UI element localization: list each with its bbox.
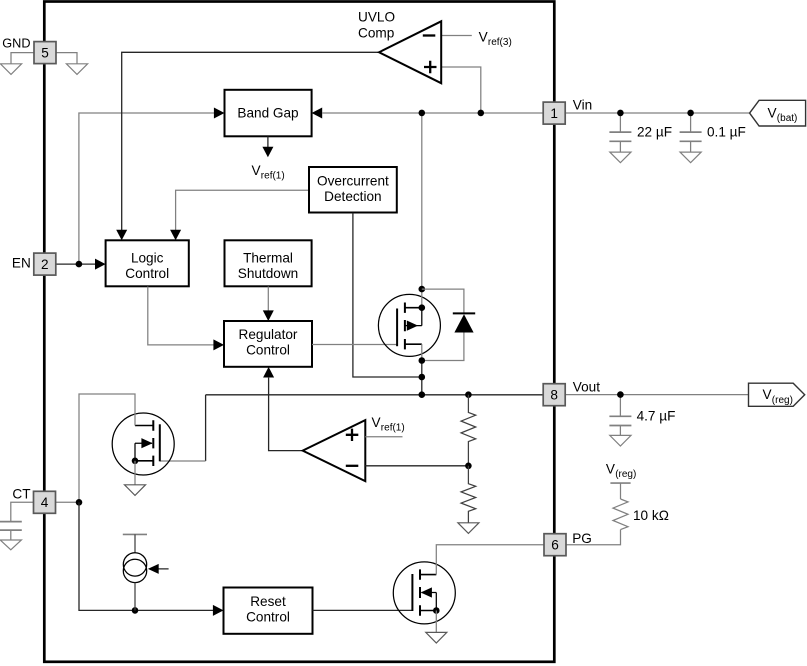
arrow into BandGap left <box>214 108 225 119</box>
svg-text:Control: Control <box>125 266 169 281</box>
minus sign UVLO <box>423 34 436 36</box>
arrow into RegulatorControl left <box>213 339 224 350</box>
svg-text:(reg): (reg) <box>615 469 636 480</box>
ground Q3 <box>426 632 447 643</box>
arrow into LogicControl top1 <box>116 230 127 241</box>
svg-text:Control: Control <box>246 610 290 625</box>
capacitor CT external <box>0 522 22 531</box>
arrow into LogicControl left <box>95 259 106 270</box>
ground C2 <box>680 152 701 163</box>
pin 6 PG <box>544 534 566 556</box>
Q2 body tap <box>135 443 152 461</box>
Q1 drain bar <box>405 307 422 309</box>
wire Vin rail external <box>565 112 750 114</box>
svg-text:Vin: Vin <box>573 98 592 113</box>
wire CT node down to reset row <box>79 502 213 610</box>
wire EN to BandGap <box>79 113 214 264</box>
svg-text:Regulator: Regulator <box>239 327 298 342</box>
svg-text:Overcurrent: Overcurrent <box>317 173 389 188</box>
svg-text:4: 4 <box>41 495 49 510</box>
flag V(reg) output <box>749 383 805 406</box>
wire pullup top lead <box>620 483 622 499</box>
wire CT pin to node <box>56 501 79 503</box>
resistor R2 feedback bottom <box>461 466 476 523</box>
svg-text:Vout: Vout <box>573 380 600 395</box>
flag V(bat) <box>750 100 806 126</box>
junction dot Vout-4.7uF <box>617 391 624 398</box>
wire BandGap down <box>267 137 269 148</box>
svg-text:10 kΩ: 10 kΩ <box>633 508 669 523</box>
svg-text:ref(1): ref(1) <box>261 170 285 181</box>
ground GND-right <box>66 64 87 75</box>
junction dot Vin-22uF <box>617 110 624 117</box>
wire Q3 drain to PG pin <box>436 545 544 575</box>
junction dot CT <box>76 499 83 506</box>
plus sign error amp <box>346 429 359 441</box>
Q2 source bar <box>135 460 153 462</box>
junction dot Vout-Q1 <box>419 391 426 398</box>
wire diode bottom link <box>422 333 464 361</box>
block Overcurrent Detection <box>309 167 397 213</box>
Q1 body arrow <box>407 321 418 331</box>
resistor R3 10k <box>613 499 628 530</box>
block Thermal Shutdown <box>225 240 312 286</box>
svg-text:0.1 µF: 0.1 µF <box>707 125 746 140</box>
wire 4.7uF leads <box>619 395 621 436</box>
svg-text:(bat): (bat) <box>777 113 798 124</box>
wire I1 bottom lead <box>134 583 136 611</box>
wire 22uF leads <box>619 113 621 152</box>
svg-text:2: 2 <box>41 257 49 272</box>
junction dot reset row <box>132 607 139 614</box>
wire I1 top lead <box>134 534 136 552</box>
wire ThermalShutdown to RegulatorControl <box>267 287 269 311</box>
IC boundary U1 <box>44 2 554 662</box>
wire Vin internal rail <box>322 112 543 114</box>
wire Vout rail to discharge gate link <box>205 395 207 461</box>
supply tick V(reg) <box>610 482 630 484</box>
ground GND-left <box>0 64 21 75</box>
Q1 body tap <box>405 308 422 326</box>
wire EN pin to LogicControl <box>56 263 95 265</box>
svg-text:1: 1 <box>550 106 558 121</box>
svg-text:Comp: Comp <box>358 25 394 40</box>
wire ResetControl to Q3 gate <box>313 609 413 611</box>
diode D1 cathode bar <box>453 312 475 314</box>
junction dot Vout-divider <box>465 391 472 398</box>
arrow into RegulatorControl bottom <box>263 367 274 378</box>
Q2 body arrow <box>141 438 152 448</box>
arrow into BandGap right <box>312 108 323 119</box>
wire Q3 source to ground <box>435 611 437 633</box>
Q3 source bar <box>420 610 436 612</box>
svg-text:8: 8 <box>550 388 558 403</box>
svg-text:V: V <box>606 462 615 477</box>
capacitor C1 22uF <box>609 132 631 141</box>
capacitor C3 4.7uF <box>609 416 631 425</box>
Q2 drain bar <box>135 425 153 427</box>
junction dot OCD node <box>419 374 426 381</box>
wire I1 control arrow stem <box>150 568 169 570</box>
transistor Q2 discharge FET circle <box>112 413 174 475</box>
arrow into LogicControl top2 <box>170 230 181 241</box>
junction dot rail-UVLO <box>478 110 485 117</box>
pin 2 EN <box>34 253 56 275</box>
Q3 gate plate <box>411 574 413 611</box>
arrow into RegulatorControl top <box>263 310 274 321</box>
block Band Gap <box>225 90 312 137</box>
ground C3 <box>610 435 631 446</box>
junction dot Q2 source <box>132 458 139 465</box>
Q1 gate plate <box>396 309 398 347</box>
pin 4 CT <box>34 491 56 513</box>
pin 5 GND <box>34 42 56 64</box>
junction dot Q3 source <box>433 607 440 614</box>
wire Q1 drain lead <box>421 289 423 308</box>
junction dot Q1 drain top <box>419 286 426 293</box>
Q3 body tap <box>421 593 436 611</box>
wire Vout rail external <box>565 394 748 396</box>
wire UVLO output to Logic Control <box>122 52 379 230</box>
wire OvercurrentDetection down to passFET source node <box>353 213 422 377</box>
svg-text:V: V <box>763 387 772 402</box>
svg-text:GND: GND <box>2 37 30 51</box>
Q3 body arrow <box>421 587 432 597</box>
arrow into ResetControl left <box>213 605 224 616</box>
svg-text:Reset: Reset <box>250 594 286 609</box>
current source I1 circles <box>123 553 146 576</box>
plus sign UVLO <box>424 61 437 73</box>
svg-text:Band Gap: Band Gap <box>237 106 298 121</box>
junction dot rail-passFET <box>419 110 426 117</box>
block Logic Control <box>106 240 189 286</box>
wire error amp output to RegulatorControl <box>269 378 303 451</box>
svg-text:Detection: Detection <box>324 189 381 204</box>
arrow into I1 <box>148 564 159 574</box>
Q1 channel dashes <box>404 303 406 350</box>
wire GND pin5 right to ground <box>56 53 77 64</box>
junction dot Q1 source node <box>419 357 426 364</box>
wire LogicControl to RegulatorControl <box>148 287 214 345</box>
wire UVLO plus input <box>441 67 481 113</box>
junction dot Q1 drain bar <box>419 304 426 311</box>
svg-text:V: V <box>252 163 261 178</box>
junction dot EN <box>76 261 83 268</box>
pin 1 Vin <box>543 102 565 124</box>
op-amp error amplifier <box>303 420 366 481</box>
junction dot Vin-0.1uF <box>687 110 694 117</box>
svg-text:Shutdown: Shutdown <box>238 266 298 281</box>
wire GND pin5 left to ground <box>11 53 34 64</box>
Q3 channel dashes <box>419 569 421 615</box>
transistor Q1 pass FET circle <box>378 294 440 356</box>
wire Vin rail down to pass FET <box>421 113 423 289</box>
junction dot divider mid <box>465 463 472 470</box>
capacitor C2 0.1uF <box>680 132 702 141</box>
svg-text:EN: EN <box>12 256 31 271</box>
wire Vout internal rail <box>206 394 544 396</box>
wire discharge FET gate lead <box>160 460 206 462</box>
ground Q2 <box>125 485 146 496</box>
wire error amp plus stub <box>365 436 402 438</box>
wire Q2 drain to CT node <box>79 394 135 502</box>
diode D1 triangle <box>454 314 473 332</box>
wire diode top link <box>422 289 464 313</box>
Q3 drain bar <box>420 574 436 576</box>
wire UVLO minus stub <box>441 35 472 37</box>
wire Q1 source node down to Vout rail <box>421 361 423 395</box>
ground C1 <box>610 152 631 163</box>
arrow BandGap Vref(1) <box>262 147 273 158</box>
wire Q1 source lead <box>421 344 423 360</box>
block Regulator Control <box>224 321 312 367</box>
op-amp UVLO comparator <box>379 21 441 83</box>
Q2 channel dashes <box>152 420 154 466</box>
svg-text:22 µF: 22 µF <box>637 125 672 140</box>
block Reset Control <box>224 588 313 634</box>
wire RegulatorControl gate lead to pass FET <box>312 344 397 346</box>
wire OvercurrentDetection to LogicControl <box>176 190 309 230</box>
svg-text:ref(1): ref(1) <box>381 423 405 434</box>
minus sign error amp <box>346 465 359 467</box>
svg-text:Logic: Logic <box>131 250 164 265</box>
pin 8 Vout <box>543 384 565 406</box>
svg-text:(reg): (reg) <box>772 395 793 406</box>
wire CT cap to ground <box>10 530 12 540</box>
wire pullup bottom to PG pin <box>566 530 621 545</box>
svg-text:CT: CT <box>12 486 30 501</box>
transistor Q3 PG FET circle <box>393 562 455 624</box>
svg-text:5: 5 <box>41 45 49 60</box>
svg-text:V: V <box>479 30 488 45</box>
resistor R1 feedback top <box>461 395 476 466</box>
current source I1 top tick <box>123 533 147 535</box>
Q1 source bar <box>405 343 422 345</box>
svg-text:ref(3): ref(3) <box>488 37 512 48</box>
svg-text:Thermal: Thermal <box>243 250 293 265</box>
wire Q2 source to ground <box>134 461 136 485</box>
svg-text:4.7 µF: 4.7 µF <box>637 409 676 424</box>
svg-text:V: V <box>372 415 381 430</box>
wire error amp minus to divider <box>365 465 468 467</box>
wire 0.1uF leads <box>690 113 692 152</box>
svg-text:UVLO: UVLO <box>358 10 395 25</box>
ground divider <box>458 523 479 534</box>
svg-text:PG: PG <box>572 531 592 546</box>
wire CT pin4 to capacitor <box>11 502 34 521</box>
svg-text:6: 6 <box>551 538 559 553</box>
svg-text:Control: Control <box>246 343 290 358</box>
svg-text:V: V <box>768 106 777 121</box>
ground CT <box>0 540 21 550</box>
Q2 gate plate <box>159 424 161 461</box>
